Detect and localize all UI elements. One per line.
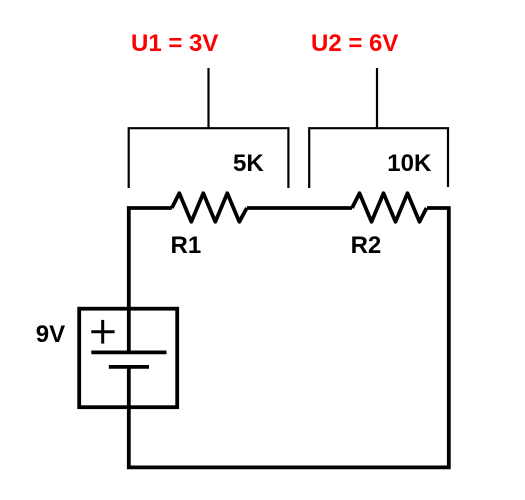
wire from R2 down right side, along bottom, up to battery - terminal — [129, 208, 449, 467]
battery B1 outline box — [79, 309, 177, 408]
svg-text:10K: 10K — [387, 150, 432, 177]
svg-text:5K: 5K — [233, 150, 264, 177]
battery plus sign — [91, 320, 114, 344]
resistor R1 — [172, 193, 247, 222]
svg-text:R2: R2 — [351, 232, 382, 259]
battery negative plate — [109, 365, 149, 369]
measurement bracket for U1 across R1 — [129, 128, 289, 188]
svg-text:9V: 9V — [36, 321, 65, 348]
measurement bracket for U2 across R2 — [309, 128, 448, 188]
resistor R2 — [352, 193, 427, 222]
svg-text:U1 = 3V: U1 = 3V — [131, 30, 218, 57]
wire from battery + terminal up and right to R1 — [129, 208, 172, 352]
pointer line from U1 label to bracket — [207, 68, 209, 128]
battery positive plate — [91, 350, 166, 354]
wire between R1 and R2 — [247, 206, 352, 210]
svg-text:U2 = 6V: U2 = 6V — [311, 30, 398, 57]
svg-text:R1: R1 — [171, 232, 202, 259]
pointer line from U2 label to bracket — [376, 68, 378, 128]
